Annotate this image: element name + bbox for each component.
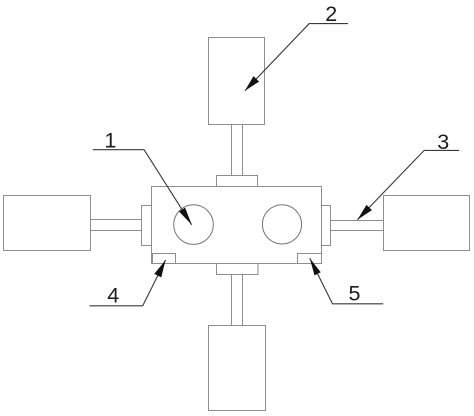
central body <box>152 187 322 264</box>
svg-text:2: 2 <box>325 2 337 26</box>
arrowhead 2 <box>245 76 259 91</box>
bottom block <box>209 326 266 411</box>
svg-text:1: 1 <box>104 128 116 152</box>
left shaft wire <box>91 230 142 232</box>
bottom shaft wire <box>242 275 244 326</box>
arrowhead 4 <box>154 260 165 277</box>
top shaft wire <box>231 125 233 176</box>
leader line 4 <box>90 260 166 306</box>
leader line 5 <box>310 258 383 304</box>
left circle hole <box>174 205 214 245</box>
arrowhead 1 <box>179 208 192 225</box>
top shaft wire <box>242 125 244 176</box>
svg-text:4: 4 <box>107 284 119 308</box>
svg-text:5: 5 <box>349 282 361 306</box>
right flange <box>322 206 331 246</box>
arrowhead 3 <box>357 205 372 220</box>
left shaft wire <box>91 219 142 221</box>
leader line 1 <box>93 150 192 225</box>
leader line 3 <box>357 150 459 219</box>
right shaft wire <box>331 230 384 232</box>
arrowhead 5 <box>310 258 321 275</box>
right shaft wire <box>331 220 384 222</box>
left flange <box>142 206 152 246</box>
left block <box>4 196 91 251</box>
bottom shaft wire <box>231 275 233 326</box>
right circle hole <box>262 205 301 244</box>
left notch <box>153 254 176 264</box>
right notch <box>298 254 322 264</box>
bottom flange <box>217 264 259 275</box>
top block <box>209 38 265 125</box>
leader line 2 <box>245 24 348 91</box>
top flange <box>217 176 258 187</box>
svg-text:3: 3 <box>437 130 449 154</box>
right block <box>384 196 470 251</box>
